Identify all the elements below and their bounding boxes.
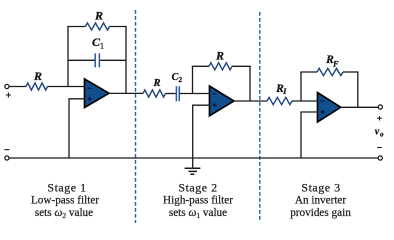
wire: R to C2 bbox=[166, 93, 176, 95]
wire: node C vertical to stage 3 feedback bbox=[300, 72, 302, 102]
svg-text:sets ω1 value: sets ω1 value bbox=[169, 207, 227, 220]
input + polarity mark bbox=[6, 93, 11, 98]
svg-text:Stage 2: Stage 2 bbox=[178, 180, 217, 194]
svg-text:R: R bbox=[94, 9, 103, 23]
wire: node A vertical to feedback branches bbox=[67, 27, 69, 88]
svg-text:Stage 3: Stage 3 bbox=[301, 180, 340, 194]
stage divider dashed line 1 bbox=[135, 10, 137, 223]
svg-text:v: v bbox=[375, 127, 380, 138]
svg-text:1: 1 bbox=[100, 42, 104, 51]
svg-text:provides gain: provides gain bbox=[290, 207, 351, 219]
wire: stage 2 feedback top right segment bbox=[232, 65, 251, 67]
svg-text:2: 2 bbox=[178, 75, 182, 84]
ground bbox=[185, 168, 201, 174]
output - polarity mark bbox=[377, 147, 382, 149]
wire: U2 output bbox=[234, 100, 267, 102]
svg-text:Low-pass filter: Low-pass filter bbox=[31, 195, 99, 207]
svg-text:I: I bbox=[282, 87, 287, 96]
wire: top feedback branch left segment bbox=[67, 26, 85, 28]
output terminal (+) bbox=[378, 105, 382, 109]
svg-text:R: R bbox=[33, 69, 42, 83]
wire: stage 2 feedback top left segment bbox=[192, 65, 209, 67]
wire: C1 branch left segment bbox=[68, 59, 95, 61]
svg-text:o: o bbox=[380, 131, 384, 139]
wire: stage 3 feedback top right segment bbox=[343, 71, 359, 73]
capacitor C2 bbox=[176, 86, 179, 101]
wire: C2 to op-amp U2 inverting input, node B bbox=[180, 93, 210, 95]
output terminal (-) bbox=[378, 156, 382, 160]
svg-text:R: R bbox=[152, 78, 160, 89]
output + polarity mark bbox=[377, 116, 381, 120]
wire: op-amp U1 non-inverting stub bbox=[69, 99, 85, 158]
input - polarity mark bbox=[4, 149, 9, 151]
wire: op-amp U2 non-inverting stub to ground bbox=[193, 105, 210, 168]
wire: node B vertical to stage 2 feedback bbox=[192, 66, 194, 94]
wire: RI to op-amp U3 inverting input, node C bbox=[292, 100, 318, 102]
op-amp U2 bbox=[210, 86, 234, 116]
wire: feedback right vertical to output bbox=[125, 27, 127, 94]
svg-text:Stage 1: Stage 1 bbox=[47, 180, 86, 194]
stage divider dashed line 2 bbox=[259, 12, 261, 222]
resistor RF (stage 3 feedback) bbox=[317, 68, 343, 75]
resistor RI (stage 3 input) bbox=[267, 97, 292, 104]
wire: input to resistor R bbox=[9, 86, 26, 88]
bottom rail wire bbox=[9, 157, 378, 159]
resistor R (stage 2 series) bbox=[143, 90, 166, 97]
input terminal (-) bbox=[5, 156, 9, 160]
op-amp U1 bbox=[85, 79, 110, 108]
capacitor C1 bbox=[95, 53, 99, 67]
svg-text:sets ω2 value: sets ω2 value bbox=[35, 207, 93, 220]
resistor R (stage 2 feedback) bbox=[209, 63, 232, 70]
op-amp U3 bbox=[318, 93, 341, 122]
svg-text:High-pass filter: High-pass filter bbox=[163, 195, 233, 207]
wire: stage 3 feedback top left segment bbox=[300, 71, 317, 73]
wire: resistor to op-amp inverting input, node A bbox=[48, 86, 85, 88]
wire: C1 branch right segment bbox=[100, 59, 126, 61]
input terminal (+) bbox=[5, 84, 9, 88]
wire: stage 2 feedback right vertical bbox=[249, 66, 251, 101]
resistor R (input) bbox=[26, 83, 48, 90]
wire: U1 output bbox=[109, 92, 143, 94]
wire: top feedback branch right segment bbox=[110, 26, 127, 28]
wire: stage 3 feedback right vertical bbox=[357, 72, 359, 107]
svg-text:An inverter: An inverter bbox=[295, 195, 347, 207]
resistor R (stage 1 feedback) bbox=[86, 23, 110, 30]
svg-text:F: F bbox=[332, 60, 339, 69]
wire: U3 output to terminal bbox=[341, 106, 379, 108]
wire: op-amp U3 non-inverting stub bbox=[301, 112, 318, 158]
svg-text:R: R bbox=[215, 48, 224, 62]
